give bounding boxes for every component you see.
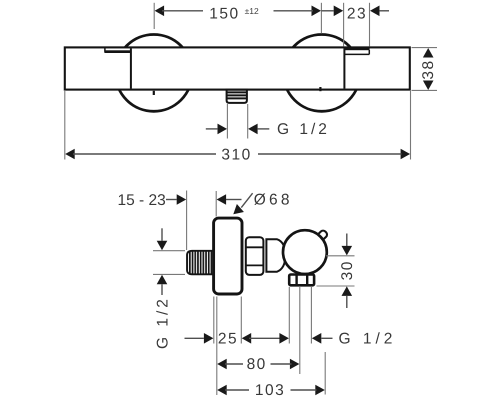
svg-text:150: 150 <box>209 6 239 23</box>
svg-text:80: 80 <box>247 356 267 373</box>
svg-text:15 - 23: 15 - 23 <box>118 192 166 209</box>
svg-text:38: 38 <box>420 59 437 79</box>
svg-text:G 1/2: G 1/2 <box>339 331 397 348</box>
svg-text:G 1/2: G 1/2 <box>155 296 172 349</box>
svg-text:103: 103 <box>255 382 285 399</box>
svg-text:23: 23 <box>347 6 367 23</box>
svg-text:25: 25 <box>218 331 238 348</box>
svg-text:G 1/2: G 1/2 <box>277 121 330 138</box>
svg-text:Ø68: Ø68 <box>254 192 293 209</box>
svg-text:±12: ±12 <box>245 6 259 16</box>
svg-text:310: 310 <box>221 146 251 163</box>
svg-text:30: 30 <box>339 260 356 280</box>
